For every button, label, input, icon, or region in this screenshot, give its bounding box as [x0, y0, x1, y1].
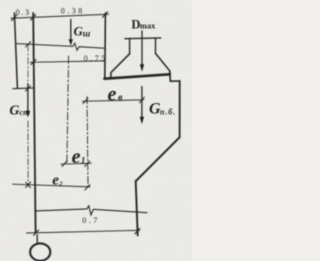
svg-text:e: e — [72, 146, 81, 168]
svg-text:0.7: 0.7 — [82, 216, 100, 225]
ground line with break symbol — [35, 206, 147, 215]
tick e_2 right — [85, 185, 90, 190]
pedestal left diagonal — [111, 54, 130, 78]
force arrow G_pb — [141, 87, 143, 118]
tick e_v right — [139, 97, 144, 102]
lower column axis dash-dot — [87, 97, 88, 187]
star tick e_2 left — [26, 182, 31, 187]
tick at x=14 — [12, 15, 17, 20]
crane pedestal top line — [125, 37, 161, 40]
tick at x=33 — [31, 15, 36, 20]
tick on top line at wall axis — [26, 42, 31, 47]
column left edge (long vertical) — [33, 13, 35, 233]
column top line with break symbol — [17, 43, 105, 50]
tick e_1 left — [62, 161, 67, 166]
e_v dimension line — [82, 100, 143, 102]
upper column right edge — [104, 13, 107, 78]
force arrow G_sh — [70, 20, 72, 41]
wall axis dash-dot lower part — [27, 121, 29, 186]
tick e_v left — [83, 98, 88, 103]
svg-text:в: в — [118, 93, 123, 104]
svg-text:1: 1 — [81, 155, 86, 165]
tick 0.7 right — [135, 229, 140, 234]
e_2 dimension line — [13, 184, 90, 187]
upper column axis dash-dot — [67, 56, 69, 164]
pedestal left vertical — [129, 38, 131, 54]
svg-text:0.75: 0.75 — [84, 54, 108, 63]
0.7 dimension line — [27, 230, 140, 233]
step to body top right corner — [170, 71, 180, 81]
pedestal right vertical — [155, 38, 157, 54]
paper background — [0, 0, 192, 261]
pedestal right diagonal — [156, 53, 170, 70]
0.75 dimension line — [30, 61, 105, 62]
tick e_1 right — [85, 161, 90, 166]
svg-text:0.3: 0.3 — [16, 8, 31, 17]
svg-text:2: 2 — [58, 181, 63, 188]
force arrow G_st — [27, 84, 29, 112]
top line of wall/G_st start, short horizontal — [13, 87, 34, 90]
pedestal base thick line — [104, 74, 169, 78]
tick at G_st line — [26, 86, 31, 91]
svg-text:e: e — [108, 83, 117, 105]
svg-text:max: max — [140, 21, 156, 31]
tick 0.7 left — [34, 230, 39, 235]
e_1 dimension line — [61, 163, 91, 164]
body right edge vertical — [179, 81, 181, 137]
svg-text:ш: ш — [83, 28, 91, 38]
body chamfer diagonal — [136, 137, 180, 181]
svg-text:п.б.: п.б. — [160, 107, 176, 116]
wall axis dash-dot upper part — [27, 44, 29, 88]
tick at x=105 — [103, 12, 108, 17]
hinge stub — [36, 235, 38, 244]
tick 0.75 left — [31, 59, 36, 64]
left extension line (wall outer face) — [14, 13, 17, 88]
body lower right edge — [136, 181, 138, 235]
svg-text:0.38: 0.38 — [61, 7, 85, 16]
hinge circle — [30, 243, 50, 260]
svg-text:G: G — [9, 104, 19, 119]
top dimension line — [11, 14, 109, 18]
svg-text:ст: ст — [19, 107, 30, 117]
force arrow D_max — [141, 31, 143, 65]
